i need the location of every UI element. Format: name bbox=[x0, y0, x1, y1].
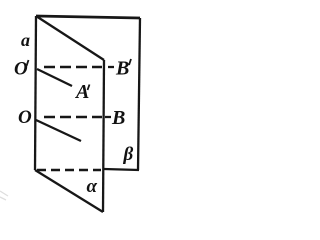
dashed segment O'B' bbox=[44, 66, 102, 68]
plane alpha bottom edge bbox=[35, 170, 103, 212]
svg-text:B: B bbox=[111, 107, 125, 129]
segment O'A' bbox=[37, 69, 72, 86]
plane alpha top edge bbox=[36, 16, 104, 60]
plane beta right edge bbox=[138, 18, 140, 170]
svg-text:β: β bbox=[123, 144, 134, 165]
segment OA bbox=[36, 120, 81, 141]
plane beta bottom edge visible bbox=[104, 169, 139, 170]
plane beta top edge bbox=[36, 16, 140, 18]
svg-text:α: α bbox=[87, 176, 98, 197]
svg-text:B: B bbox=[115, 58, 129, 80]
tick before B bbox=[105, 116, 111, 118]
plane beta bottom edge hidden (dashed) bbox=[37, 169, 101, 171]
svg-text:O: O bbox=[18, 107, 32, 128]
dashed segment OB bbox=[44, 116, 102, 118]
svg-text:A: A bbox=[74, 81, 89, 103]
faint scan smudge bottom-left bbox=[0, 191, 8, 200]
tick before B' bbox=[108, 66, 114, 68]
svg-text:a: a bbox=[21, 30, 30, 50]
svg-text:O: O bbox=[14, 59, 28, 80]
line a (intersection of planes) bbox=[35, 16, 36, 170]
plane alpha right edge bbox=[103, 60, 104, 212]
